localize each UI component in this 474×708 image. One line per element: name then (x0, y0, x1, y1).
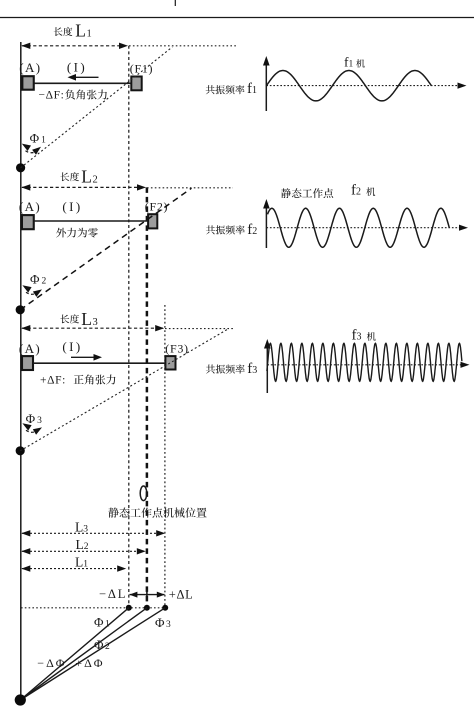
svg-text:−ΔΦ: −ΔΦ (37, 656, 66, 670)
angle arc 3 (26, 430, 35, 432)
string 2 (34, 220, 148, 222)
svg-text:(F3): (F3) (165, 342, 188, 356)
label 长度 L2 (60, 172, 69, 181)
mass block F1 (131, 77, 141, 91)
guide line F3 (x=165) (164, 305, 166, 608)
svg-text:Φ2: Φ2 (94, 637, 110, 652)
label 长度 L1 (54, 27, 63, 36)
wave1 y-axis (265, 61, 267, 111)
svg-text:f2: f2 (247, 222, 257, 238)
label zero force (56, 228, 66, 238)
guide line F2 static operating point (x=147) (146, 187, 149, 607)
dimension L3 bottom (22, 532, 164, 534)
svg-text:(A): (A) (19, 341, 41, 356)
svg-text:f3: f3 (352, 327, 362, 343)
string 3 (33, 362, 165, 364)
node dot 2 (16, 305, 25, 314)
anchor block A3 (22, 356, 33, 370)
svg-text:(A): (A) (19, 199, 41, 214)
diagonal phi1 (21, 47, 173, 168)
label resonance freq f3 (206, 365, 215, 374)
sine wave f2 (268, 208, 450, 247)
svg-text:f3: f3 (247, 361, 257, 377)
svg-text:+ΔF:: +ΔF: (40, 374, 66, 386)
angle arc 1 (26, 151, 35, 153)
dimension L1 bottom (22, 568, 125, 570)
anchor block A1 (22, 76, 33, 90)
guide line F1 (x=129) (128, 46, 130, 608)
dotted extension line unit2 (147, 187, 233, 189)
sine wave f3 (267, 343, 462, 381)
svg-text:L3: L3 (75, 520, 88, 535)
svg-text:−ΔF:: −ΔF: (39, 89, 65, 101)
dimension line L3 (22, 327, 163, 329)
phi line 3 (20, 608, 165, 700)
junction dot L3 (162, 605, 168, 611)
phi line 2 (20, 608, 147, 700)
mass block F3 (165, 356, 175, 369)
svg-text:f2: f2 (351, 183, 361, 199)
label resonance freq f1 (206, 85, 215, 94)
svg-text:Φ1: Φ1 (94, 615, 110, 630)
anchor block A2 (22, 215, 34, 229)
wave2 x-axis (266, 227, 462, 229)
svg-text:L2: L2 (76, 537, 89, 552)
top center tick (174, 0, 176, 6)
svg-text:Φ3: Φ3 (26, 411, 43, 426)
label resonance freq f2 (206, 225, 215, 234)
svg-text:(I): (I) (62, 339, 82, 354)
dimension L2 bottom (22, 550, 144, 552)
left wall line (20, 42, 22, 700)
dotted baseline (21, 607, 166, 609)
node dot 1 (16, 163, 25, 172)
wave3 y-axis (266, 344, 268, 393)
string 1 (34, 82, 131, 84)
force arrow right (unit3) (71, 356, 95, 358)
diagonal phi3 (20, 329, 228, 451)
dotted extension line unit3 (165, 328, 234, 330)
top border line (0, 17, 474, 19)
angle arc 2 (26, 292, 35, 294)
svg-text:Φ2: Φ2 (30, 271, 47, 286)
force arrow left (unit1) (74, 76, 99, 78)
label 0 (origin) (140, 486, 147, 501)
dimension line L2 (22, 186, 145, 188)
delta L double arrow (130, 594, 165, 596)
junction dot L2 (144, 605, 150, 611)
svg-text:f1: f1 (247, 81, 257, 97)
svg-text:−ΔL: −ΔL (99, 587, 127, 601)
svg-text:+ΔΦ: +ΔΦ (75, 656, 104, 670)
svg-text:(I): (I) (67, 60, 87, 75)
svg-text:L3: L3 (81, 309, 97, 329)
svg-text:L1: L1 (75, 21, 91, 41)
mass block F2 (148, 214, 157, 228)
label 长度 L3 (60, 315, 69, 324)
wave3 x-axis (267, 364, 464, 366)
sine wave f1 (266, 71, 431, 101)
svg-text:(I): (I) (62, 199, 82, 214)
dimension line L1 (22, 45, 127, 47)
wave1 x-axis (266, 85, 461, 87)
wave2 y-axis (265, 204, 267, 248)
diagonal phi2 (20, 188, 191, 310)
label static operating point (wave2) (281, 188, 291, 198)
phi line 1 (20, 608, 129, 700)
node dot 3 (16, 446, 25, 455)
dotted extension line unit1 (129, 45, 236, 47)
svg-text:+ΔL: +ΔL (169, 588, 194, 602)
svg-text:L2: L2 (81, 167, 97, 187)
svg-text:(A): (A) (19, 60, 41, 75)
junction dot L1 (126, 605, 132, 611)
svg-text:(F1): (F1) (130, 62, 153, 76)
svg-text:L1: L1 (75, 555, 88, 570)
svg-text:Φ1: Φ1 (30, 130, 47, 145)
svg-text:Φ3: Φ3 (155, 615, 171, 630)
apex dot (15, 694, 26, 705)
label static op point mech position (108, 508, 118, 518)
svg-text:f1: f1 (344, 55, 354, 70)
